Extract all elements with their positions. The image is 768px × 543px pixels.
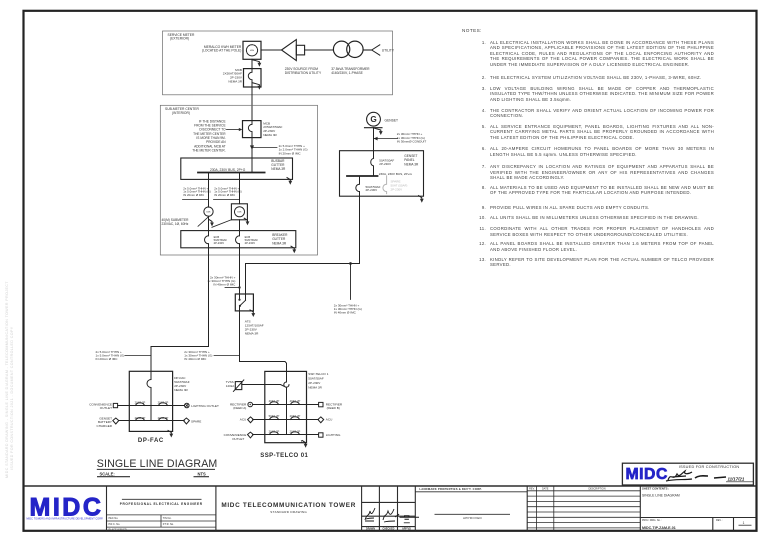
svg-text:2P-230V: 2P-230V: [245, 241, 256, 245]
feeder direction arrow: [250, 145, 254, 150]
svg-text:IN 20mm Ø IMC: IN 20mm Ø IMC: [279, 151, 302, 155]
svg-text:APPROVED: APPROVED: [463, 516, 483, 520]
SSP breaker r1 left: [270, 402, 279, 405]
svg-text:SSP-TELCO 01: SSP-TELCO 01: [260, 453, 308, 459]
D-P-FAC main label: [174, 376, 190, 392]
bus drop wire B: [239, 173, 241, 204]
svg-text:NEMA 3R: NEMA 3R: [228, 79, 242, 83]
branch breaker r1 left: [136, 403, 145, 406]
svg-text:50AT/50AF: 50AT/50AF: [308, 376, 324, 380]
svg-text:G: G: [370, 115, 376, 124]
ECB 1 label: [214, 235, 228, 245]
svg-text:ACU: ACU: [240, 418, 247, 422]
svg-text:2P-230V: 2P-230V: [214, 241, 225, 245]
ground arrow genset panel: [419, 196, 424, 203]
svg-text:IN 20mm Ø IMC: IN 20mm Ø IMC: [214, 193, 235, 197]
SSP breaker r1 right: [291, 402, 300, 405]
svg-text:LANDMARK PROPERTIES & DEV'T. C: LANDMARK PROPERTIES & DEV'T. CORP.: [419, 487, 482, 491]
feeder wire tag: [279, 144, 308, 155]
kWh glyphs: [206, 50, 255, 214]
transformer 37.5kVA (two overlapping circles): [333, 41, 349, 57]
svg-text:20AT, 2P: 20AT, 2P: [135, 400, 146, 404]
branch ratings D-P-FAC: [135, 400, 169, 420]
signature grid rules: [362, 501, 416, 503]
revision headers: [529, 488, 606, 491]
rectifier feed A terminal: [248, 402, 253, 407]
wire: meter to MCB: [251, 59, 253, 68]
svg-text:(EXTERIOR): (EXTERIOR): [170, 37, 189, 41]
SSP breaker r3 left: [270, 432, 279, 435]
svg-text:ISSUED FOR CONSTRUCTION: ISSUED FOR CONSTRUCTION: [679, 465, 740, 469]
svg-text:IN 40mm Ø IMC: IN 40mm Ø IMC: [184, 357, 207, 361]
svg-text:20AT, 2P: 20AT, 2P: [158, 400, 169, 404]
svg-text:1: 1: [301, 439, 303, 443]
svg-text:2P-230V: 2P-230V: [366, 188, 378, 192]
D-P-FAC feeder tag: [96, 350, 125, 361]
wire: genset panel down and across to ATS: [246, 192, 360, 301]
signature scribbles drawn/checked: [365, 508, 419, 523]
svg-text:NEMA 3R: NEMA 3R: [174, 388, 188, 392]
svg-text:230A, 230V BUS, 2P+G: 230A, 230V BUS, 2P+G: [379, 172, 413, 176]
note pointer arrow to MCB: [227, 129, 240, 131]
genset feeder tag arrow + leader: [374, 137, 378, 141]
load arrow at genset: [373, 128, 382, 135]
wire: genset down to panel: [373, 128, 375, 159]
genset main breaker: [371, 158, 374, 176]
genset bus drop breaker: [356, 176, 360, 192]
wire: kwh meter to weatherhead: [261, 49, 282, 51]
svg-text:(FEED A): (FEED A): [233, 406, 246, 410]
junction dot on genset run: [349, 262, 352, 265]
svg-text:MIDC TOWERS AND INFRASTRUCTURE: MIDC TOWERS AND INFRASTRUCTURE DEVELOPME…: [27, 518, 104, 521]
breaker gutter box: [181, 231, 296, 248]
genset main breaker label: [379, 158, 394, 166]
svg-text:NTS: NTS: [198, 471, 206, 476]
ground arrow busbar gutter: [287, 178, 292, 185]
svg-text:SINGLE LINE DIAGRAM: SINGLE LINE DIAGRAM: [97, 458, 218, 470]
D-P-FAC main breaker: [147, 371, 151, 420]
svg-text:DP-FAC: DP-FAC: [138, 438, 164, 444]
svg-text:40AT, 2P: 40AT, 2P: [290, 399, 301, 403]
weatherhead (service entrance cap): [282, 40, 297, 61]
load names D-P-FAC right: [191, 404, 219, 423]
utility incoming line symbol: [372, 45, 380, 55]
svg-text:11/17/21: 11/17/21: [728, 476, 745, 481]
ACU terminal right: [318, 417, 324, 423]
lighting outlet terminal: [185, 403, 190, 408]
sub-meter MCB: [243, 121, 262, 138]
svg-text:UTILITY: UTILITY: [382, 48, 395, 52]
svg-text:PEC No.: PEC No.: [109, 517, 119, 520]
svg-text:kWh: kWh: [237, 212, 242, 214]
branch breaker r1 right: [159, 403, 168, 406]
svg-text:IN 20mm Ø IMC: IN 20mm Ø IMC: [183, 193, 204, 197]
svg-text:20AT, 2P: 20AT, 2P: [269, 429, 280, 433]
spare terminal: [183, 418, 189, 424]
ECB 2 label: [245, 235, 259, 245]
signature column labels: [366, 528, 411, 531]
branch breaker r2 left: [136, 418, 145, 421]
svg-text:NEMA 3R: NEMA 3R: [245, 331, 259, 335]
genset drop breaker label: [366, 185, 381, 192]
submeter label: [162, 218, 190, 226]
ACU terminal left: [248, 417, 254, 423]
svg-text:PLACE ISSUED: PLACE ISSUED: [109, 529, 127, 532]
D-P-FAC branch row 2: [119, 420, 184, 422]
svg-text:230VAC, 1Ø, 60Hz: 230VAC, 1Ø, 60Hz: [162, 222, 189, 226]
revision table rules: [536, 486, 538, 531]
genset panel label: [404, 154, 419, 166]
svg-text:(LOCATED AT THE POLE): (LOCATED AT THE POLE): [202, 49, 241, 53]
kWh sub-meter 1: [204, 207, 213, 216]
genset G circle: [367, 112, 381, 126]
busbar gutter label: [271, 159, 286, 171]
svg-text:50AT, 2P: 50AT, 2P: [269, 414, 280, 418]
svg-text:IN 40mm Ø IMC: IN 40mm Ø IMC: [213, 283, 236, 287]
load arrow at sub-meter 1: [209, 219, 214, 226]
ATS tag leader + junction: [225, 287, 240, 289]
issued for construction stamp box: [622, 463, 753, 485]
svg-text:20AT, 2P: 20AT, 2P: [158, 416, 169, 420]
svg-text:2P-230V: 2P-230V: [308, 381, 321, 385]
spare breaker (unused, grey): [383, 176, 387, 194]
genset panel bus: [347, 175, 378, 177]
svg-text:SPARE: SPARE: [191, 419, 201, 423]
svg-text:SSP-TELCO 1: SSP-TELCO 1: [308, 372, 328, 376]
svg-text:NEMA 3R: NEMA 3R: [263, 133, 277, 137]
drop A wire tag: [183, 186, 210, 197]
wire: ECB2 down to ATS: [239, 244, 241, 294]
SSP-TELCO panel box: [265, 371, 307, 442]
meralco meter label: [202, 45, 242, 53]
svg-text:ACU: ACU: [326, 418, 333, 422]
D-P-FAC panel box: [129, 371, 172, 431]
genset battery charger terminal: [113, 418, 119, 424]
wire tag leader A: [183, 199, 209, 201]
svg-text:MIDC TELECOMMUNICATION TOWER: MIDC TELECOMMUNICATION TOWER: [221, 502, 356, 509]
load names SSP left: [224, 403, 247, 441]
title block grid: [24, 486, 757, 531]
distance note: [192, 120, 226, 153]
submeter label leader lines: [198, 217, 209, 227]
svg-text:PROJ. DWG. No. :: PROJ. DWG. No. :: [642, 519, 662, 522]
wire: ECB1 down to D-P-FAC: [151, 244, 209, 371]
svg-text:APP'VD: APP'VD: [402, 528, 411, 531]
SSP branch row 1: [253, 404, 319, 406]
SSP feeder tag: [184, 350, 212, 361]
ATS box: [235, 294, 253, 311]
svg-text:kWh: kWh: [206, 212, 211, 214]
load arrow at sub-meter 2: [244, 218, 249, 225]
svg-text:230A, 230V BUS, 2P+G: 230A, 230V BUS, 2P+G: [210, 168, 246, 172]
load names D-P-FAC left: [89, 402, 112, 428]
wire: transformer to utility: [364, 49, 372, 51]
breaker gutter label: [272, 233, 288, 245]
branch breaker r2 right: [159, 418, 168, 421]
sub-meter center area box: [160, 105, 317, 255]
svg-text:SCALE:: SCALE:: [100, 471, 115, 476]
convenience outlet terminal SSP: [248, 432, 254, 438]
engineer cell rules: [122, 498, 202, 500]
svg-text:MIDC-TIP-ZAM-E-01: MIDC-TIP-ZAM-E-01: [642, 526, 676, 530]
svg-text:2P-230V: 2P-230V: [391, 187, 403, 191]
svg-text:2P-230V: 2P-230V: [379, 162, 391, 166]
svg-text:LIGHTING OUTLET: LIGHTING OUTLET: [191, 404, 219, 408]
svg-text:40AT, 2P: 40AT, 2P: [269, 399, 280, 403]
svg-text:IN 40mm Ø IMC: IN 40mm Ø IMC: [334, 311, 357, 315]
svg-text:NEMA 3R: NEMA 3R: [271, 167, 286, 171]
svg-text:DATE: DATE: [542, 488, 549, 491]
svg-text:DESCRIPTION: DESCRIPTION: [588, 488, 605, 491]
SSP breaker r3 right: [291, 432, 300, 435]
wire: sub-meter 1 to ECB: [208, 216, 210, 236]
svg-text:REV.: REV.: [529, 488, 535, 491]
svg-text:OUTLET: OUTLET: [100, 406, 112, 410]
svg-text:1: 1: [743, 521, 745, 525]
svg-text:REV. :: REV. :: [716, 519, 723, 522]
ground arrow SSP-TELCO: [302, 441, 307, 448]
SSP breaker r2 right: [291, 417, 300, 420]
svg-text:IN 30mmØ CONDUIT: IN 30mmØ CONDUIT: [397, 140, 427, 144]
ground arrow breaker gutter: [291, 246, 296, 253]
genset run wire tag: [334, 303, 362, 314]
MERALCO kWh meter: [243, 41, 261, 59]
SSP main label: [308, 372, 328, 390]
svg-text:NEMA 3R: NEMA 3R: [404, 162, 419, 166]
svg-text:TIN No.: TIN No.: [163, 517, 172, 520]
svg-text:kWh: kWh: [250, 50, 255, 52]
scale bars: [97, 476, 130, 478]
svg-text:(FEED B): (FEED B): [327, 406, 340, 410]
svg-text:NEMA 3R: NEMA 3R: [272, 241, 287, 245]
ATS normal-source contact: [239, 294, 241, 299]
wire: MCB down to sub-meter center: [251, 87, 253, 121]
genset panel box: [340, 151, 424, 197]
svg-text:THE METER CENTER.: THE METER CENTER.: [192, 148, 225, 152]
rectifier feed B terminal: [319, 402, 323, 406]
230V bus bar: [198, 172, 265, 174]
branch ratings SSP: [269, 399, 301, 433]
faint scanner text on left margin: [5, 281, 9, 478]
svg-text:OUTLET: OUTLET: [232, 437, 244, 441]
load arrow below MCB: [252, 83, 261, 90]
svg-text:CHARGER: CHARGER: [97, 424, 113, 428]
load names SSP right: [326, 403, 343, 438]
approved mark: [400, 516, 420, 520]
svg-text:20AT, 2P: 20AT, 2P: [135, 416, 146, 420]
bus drop wire A: [208, 173, 210, 208]
svg-text:SHEET CONTENTS :: SHEET CONTENTS :: [642, 487, 669, 491]
owner cell rules: [415, 491, 527, 493]
service MCB: [244, 69, 262, 87]
drawing title: [97, 458, 218, 470]
busbar gutter box: [181, 158, 293, 179]
ATS transfer blade: [240, 300, 246, 305]
svg-text:20AT, 2P: 20AT, 2P: [290, 414, 301, 418]
TVSS label: [226, 380, 235, 388]
wire tag leader ATS output: [214, 355, 240, 357]
svg-text:STANDARD DRAWING: STANDARD DRAWING: [270, 510, 307, 514]
SSP branch row 3: [253, 434, 319, 436]
service MCB label: [223, 68, 243, 83]
svg-text:4160/230V, 1-PHASE: 4160/230V, 1-PHASE: [331, 71, 363, 75]
drop B wire tag: [214, 186, 241, 197]
SSP center feeder: [286, 387, 288, 434]
genset base line: [365, 127, 383, 129]
svg-text:(INTERIOR): (INTERIOR): [172, 111, 190, 115]
svg-text:NEMA 3R: NEMA 3R: [308, 385, 322, 389]
wire: sub-meter 2 to ECB: [239, 220, 241, 236]
svg-text:P.T.R. No.: P.T.R. No.: [163, 523, 174, 526]
svg-text:DISTRIBUTION UTILITY: DISTRIBUTION UTILITY: [285, 71, 322, 75]
svg-text:GENSET: GENSET: [385, 118, 399, 122]
svg-text:20AT, 2P: 20AT, 2P: [290, 429, 301, 433]
notes text: [457, 28, 714, 268]
stamp signature scribble: [666, 471, 726, 481]
sheet cell rules: [640, 517, 756, 519]
SSP main breaker hook: [284, 382, 289, 387]
TVSS link to SSP main breaker: [242, 385, 284, 387]
title underline: [97, 468, 215, 470]
svg-text:CHECKED: CHECKED: [382, 528, 394, 531]
load arrow below meter: [252, 60, 261, 67]
spare labels grey: [391, 179, 408, 191]
sub-meter MCB label: [263, 121, 282, 136]
ATS label: [245, 319, 264, 335]
svg-text:P.R.C. No.: P.R.C. No.: [109, 523, 121, 526]
svg-text:SINGLE LINE DIAGRAM: SINGLE LINE DIAGRAM: [642, 494, 680, 498]
svg-text:LIGHTING: LIGHTING: [326, 433, 341, 437]
SSP branch row 2: [253, 419, 319, 421]
wire tag stub genset run: [350, 264, 352, 300]
wire: ATS output to SSP-TELCO panel: [240, 306, 287, 382]
convenience outlet terminal: [113, 403, 117, 407]
ATS wire tag: [207, 275, 236, 286]
svg-text:IN 20mm Ø IMC: IN 20mm Ø IMC: [96, 357, 119, 361]
service meter area box: [163, 31, 393, 95]
ECB breaker 2: [236, 236, 240, 244]
ground arrow D-P-FAC: [168, 430, 173, 437]
wire tag leader B: [214, 199, 240, 201]
TVSS surge protector: [235, 382, 242, 390]
ECB breaker 1: [205, 236, 209, 244]
wire: weatherhead to transformer: [305, 49, 334, 51]
svg-text:DRAWN: DRAWN: [366, 528, 375, 531]
svg-text:PROFESSIONAL ELECTRICAL ENGINE: PROFESSIONAL ELECTRICAL ENGINEER: [120, 502, 203, 506]
svg-text:MIDC: MIDC: [626, 466, 668, 483]
genset feeder tag: [397, 132, 427, 143]
SSP breaker r2 left: [270, 417, 279, 420]
svg-text:120kA: 120kA: [226, 384, 235, 388]
wire tag leader D-P-FAC feeder: [125, 355, 151, 357]
lighting terminal: [319, 433, 323, 437]
kWh sub-meter 2: [231, 204, 247, 220]
leader to wire tag: [253, 147, 277, 149]
D-P-FAC branch row 1: [118, 405, 185, 407]
ground arrow ATS: [250, 310, 255, 317]
wire: MCB to busbar gutter: [251, 138, 253, 173]
